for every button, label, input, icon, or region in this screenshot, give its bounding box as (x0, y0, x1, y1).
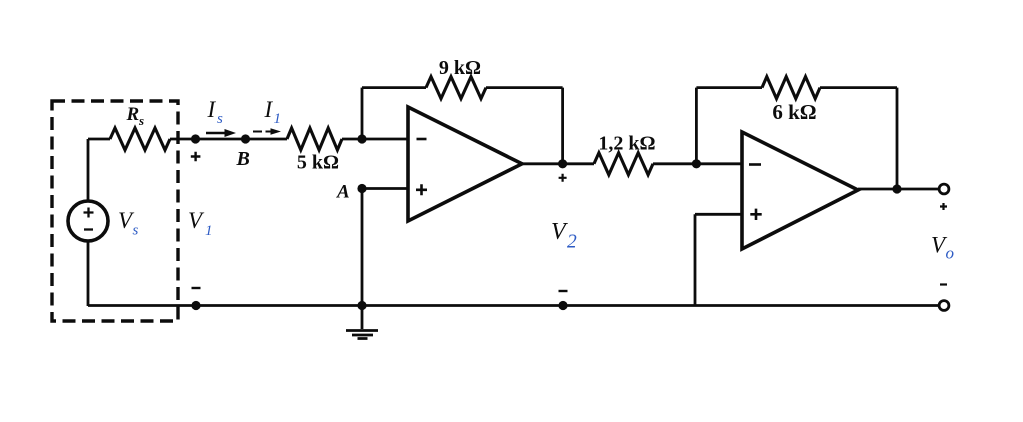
feedback wire 1 right vertical (561, 88, 564, 164)
svg-text:o: o (946, 244, 955, 263)
svg-text:I: I (264, 97, 274, 122)
plus mark of V1 (191, 152, 201, 162)
ground symbol (361, 306, 364, 330)
resistor Rs (110, 128, 170, 150)
wire 1.2k to op-amp 2 minus input (653, 162, 742, 165)
U2 non-inverting input mark (750, 209, 761, 220)
wire U2 output (858, 188, 939, 191)
resistor 1.2k (594, 153, 653, 175)
svg-text:s: s (217, 111, 223, 127)
bottom ground rail (88, 304, 939, 307)
minus mark of V2 (559, 290, 568, 292)
plus mark of V2 (559, 174, 567, 182)
dashed source box (52, 101, 178, 321)
plus mark of Vo (940, 203, 947, 210)
wire U1 output to 1.2k (522, 162, 594, 165)
voltage source Vs (68, 201, 108, 241)
feedback wire 2 left vertical (695, 88, 698, 164)
minus mark of Vo (940, 283, 947, 285)
feedback wire 1 top left (362, 86, 426, 89)
svg-text:5 kΩ: 5 kΩ (297, 152, 339, 174)
bottom node on box edge (191, 301, 200, 310)
wire U2 plus input left (695, 213, 742, 216)
wire top-left from source to resistor Rs (88, 138, 110, 141)
node feedback 2 tap (692, 159, 701, 168)
minus mark of V1 (192, 287, 201, 289)
svg-text:A: A (336, 182, 350, 203)
resistor 6k (762, 77, 820, 99)
svg-text:s: s (138, 113, 144, 128)
current arrow I1 (253, 131, 272, 133)
svg-text:s: s (133, 223, 139, 239)
svg-text:6 kΩ: 6 kΩ (772, 100, 816, 124)
wire node A to plus input (362, 187, 408, 190)
svg-text:I: I (207, 97, 217, 122)
feedback wire 1 left vertical (361, 88, 364, 139)
svg-text:1: 1 (274, 111, 282, 127)
V2 bottom node (558, 301, 567, 310)
svg-text:1: 1 (205, 223, 213, 239)
svg-text:9 kΩ: 9 kΩ (439, 57, 481, 79)
feedback wire 2 top left (696, 86, 762, 89)
svg-text:1,2 kΩ: 1,2 kΩ (598, 133, 655, 155)
wire Rs to node B (170, 138, 287, 141)
svg-text:R: R (126, 104, 140, 125)
output terminal top (939, 184, 949, 194)
node A (357, 184, 366, 193)
U1 non-inverting input mark (416, 184, 427, 195)
U2 inverting input mark (749, 163, 761, 166)
node on box edge (191, 134, 200, 143)
feedback wire 1 top right (486, 86, 563, 89)
node feedback tap (357, 134, 366, 143)
svg-text:B: B (236, 148, 250, 170)
U2 output node (892, 184, 901, 193)
op-amp U2 (742, 132, 858, 249)
ground junction node (357, 301, 366, 310)
wire node A down to ground rail (361, 189, 364, 306)
output terminal bottom (939, 301, 949, 311)
wire U2 plus input down to rail (694, 214, 697, 305)
wire 5k to op-amp minus input (342, 138, 408, 141)
resistor 5k (287, 128, 342, 150)
current arrow Is (206, 132, 227, 135)
feedback wire 2 right vertical (896, 88, 899, 189)
svg-text:2: 2 (567, 232, 577, 253)
op-amp U1 (408, 107, 522, 221)
svg-text:V: V (551, 219, 568, 245)
wire: source left vertical (87, 139, 90, 306)
feedback wire 2 top right (820, 86, 897, 89)
resistor 9k (426, 77, 486, 99)
U1 output node (558, 159, 567, 168)
U1 inverting input mark (417, 138, 427, 141)
node B (241, 134, 250, 143)
